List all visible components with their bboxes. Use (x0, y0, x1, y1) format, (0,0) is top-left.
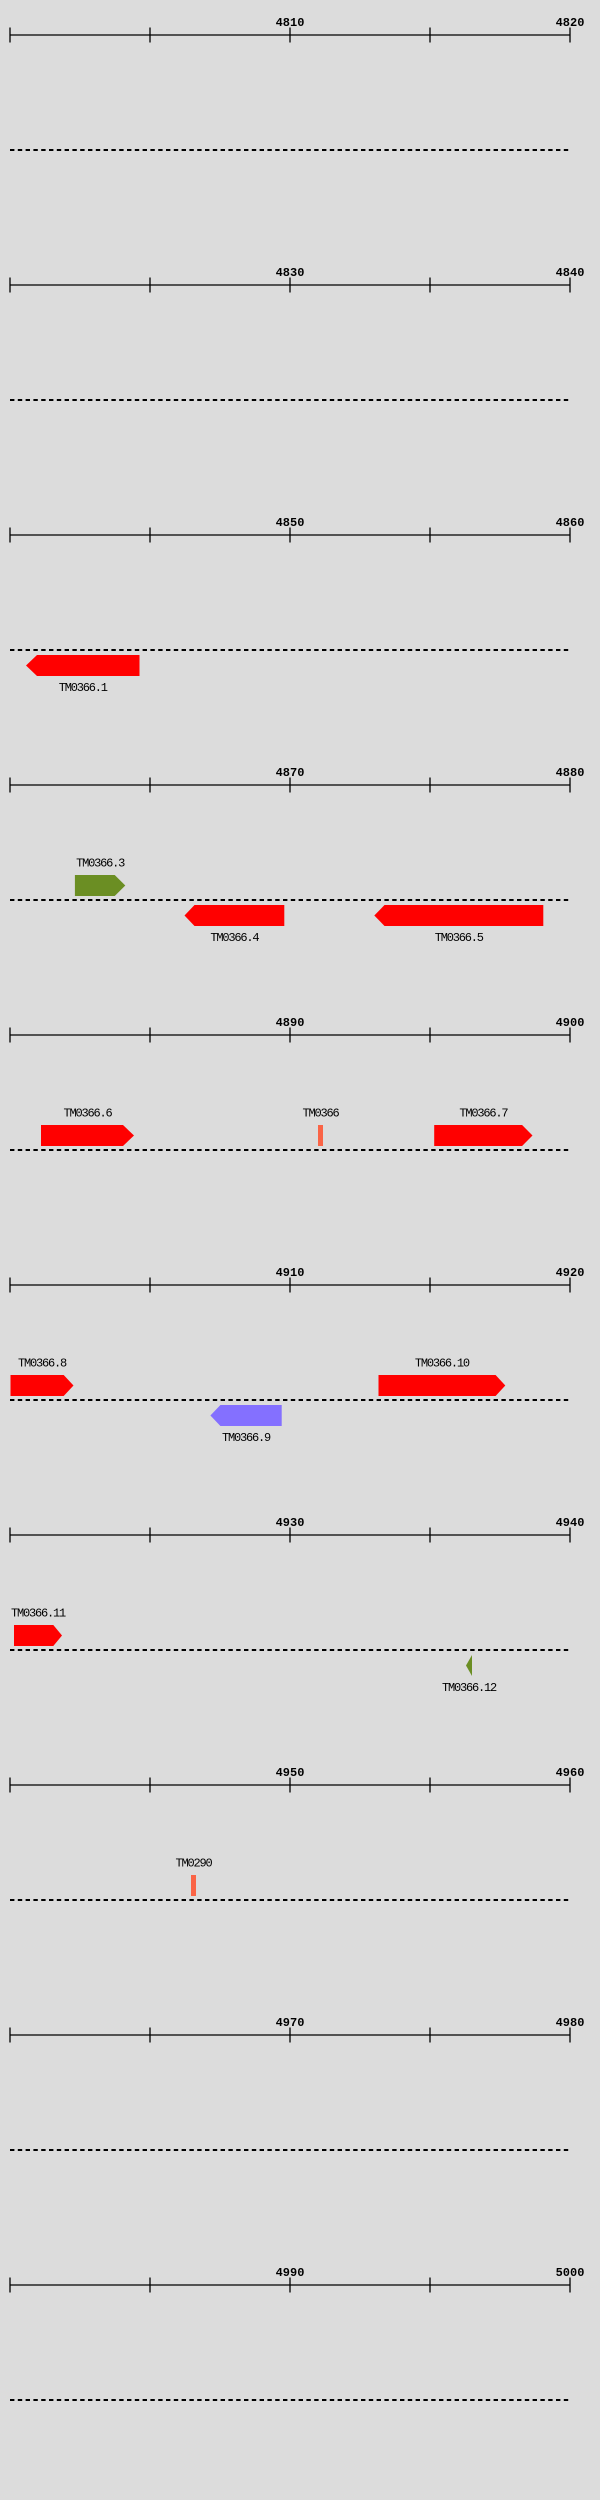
sequence line panel 4 (10, 899, 570, 901)
svg-text:TM0366.5: TM0366.5 (435, 931, 484, 945)
svg-text:4870: 4870 (276, 766, 305, 780)
svg-text:5000: 5000 (556, 2266, 585, 2280)
svg-text:TM0366.12: TM0366.12 (442, 1681, 497, 1695)
svg-text:4900: 4900 (556, 1016, 585, 1030)
gene TM0366.11 (forward arrow) (14, 1625, 62, 1646)
gene TM0366.1 (reverse arrow) (26, 655, 140, 676)
ruler panel 10 (4980-5000 kb) (10, 2278, 570, 2293)
gene TM0366.8 (forward arrow) (11, 1375, 74, 1396)
sequence line panel 8 (10, 1899, 570, 1901)
gene TM0366.6 (forward arrow) (41, 1125, 134, 1146)
sequence line panel 5 (10, 1149, 570, 1151)
sequence line panel 1 (10, 149, 570, 151)
svg-text:4860: 4860 (556, 516, 585, 530)
svg-text:4810: 4810 (276, 16, 305, 30)
svg-text:TM0366.4: TM0366.4 (210, 931, 259, 945)
svg-text:TM0366.9: TM0366.9 (222, 1431, 271, 1445)
gene TM0366.7 (forward arrow) (434, 1125, 532, 1146)
ruler panel 7 (4920-4940 kb) (10, 1528, 570, 1543)
sequence line panel 9 (10, 2149, 570, 2151)
ruler panel 2 (4820-4840 kb) (10, 278, 570, 293)
svg-text:TM0366.1: TM0366.1 (59, 681, 108, 695)
svg-text:4990: 4990 (276, 2266, 305, 2280)
svg-text:TM0290: TM0290 (175, 1857, 212, 1871)
svg-text:4890: 4890 (276, 1016, 305, 1030)
svg-text:4880: 4880 (556, 766, 585, 780)
svg-text:TM0366.10: TM0366.10 (415, 1357, 470, 1371)
svg-text:4950: 4950 (276, 1766, 305, 1780)
sequence line panel 2 (10, 399, 570, 401)
svg-text:4970: 4970 (276, 2016, 305, 2030)
gene TM0290 (small tick) (191, 1875, 196, 1896)
gene TM0366.10 (forward arrow) (379, 1375, 506, 1396)
svg-text:4980: 4980 (556, 2016, 585, 2030)
svg-text:TM0366.3: TM0366.3 (76, 857, 125, 871)
ruler panel 8 (4940-4960 kb) (10, 1778, 570, 1793)
svg-text:TM0366.8: TM0366.8 (18, 1357, 67, 1371)
gene TM0366.5 (reverse arrow) (374, 905, 543, 926)
ruler panel 9 (4960-4980 kb) (10, 2028, 570, 2043)
svg-text:4840: 4840 (556, 266, 585, 280)
svg-text:TM0366: TM0366 (302, 1107, 339, 1121)
ruler panel 5 (4880-4900 kb) (10, 1028, 570, 1043)
svg-text:TM0366.11: TM0366.11 (11, 1607, 66, 1621)
sequence line panel 10 (10, 2399, 570, 2401)
svg-text:4920: 4920 (556, 1266, 585, 1280)
ruler panel 3 (4840-4860 kb) (10, 528, 570, 543)
gene TM0366.3 (forward arrow) (75, 875, 125, 896)
svg-text:4830: 4830 (276, 266, 305, 280)
svg-text:TM0366.7: TM0366.7 (459, 1107, 508, 1121)
svg-text:4960: 4960 (556, 1766, 585, 1780)
svg-text:4940: 4940 (556, 1516, 585, 1530)
gene TM0366.12 (tiny reverse arrowhead) (466, 1655, 472, 1676)
sequence line panel 7 (10, 1649, 570, 1651)
svg-text:4910: 4910 (276, 1266, 305, 1280)
gene TM0366.9 (reverse arrow) (210, 1405, 281, 1426)
svg-text:TM0366.6: TM0366.6 (63, 1107, 112, 1121)
svg-text:4930: 4930 (276, 1516, 305, 1530)
gene TM0366.4 (reverse arrow) (185, 905, 285, 926)
ruler panel 1 (4800-4820 kb) (10, 28, 570, 43)
gene TM0366 (small tick) (318, 1125, 323, 1146)
ruler panel 4 (4860-4880 kb) (10, 778, 570, 793)
svg-text:4820: 4820 (556, 16, 585, 30)
ruler panel 6 (4900-4920 kb) (10, 1278, 570, 1293)
sequence line panel 3 (10, 649, 570, 651)
svg-text:4850: 4850 (276, 516, 305, 530)
sequence line panel 6 (10, 1399, 570, 1401)
